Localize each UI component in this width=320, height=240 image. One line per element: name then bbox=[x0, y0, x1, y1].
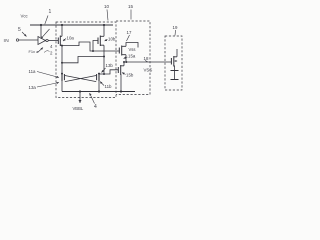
leader for 18 bbox=[145, 61, 148, 62]
transistor Q11b latch right bbox=[98, 73, 100, 81]
leader for 19 bbox=[174, 30, 177, 36]
wire Q15b source to rail bbox=[120, 74, 122, 91]
svg-text:11b: 11b bbox=[105, 84, 113, 89]
svg-text:1: 1 bbox=[49, 9, 52, 15]
node rail-Q10a bbox=[61, 24, 63, 26]
svg-text:15b: 15b bbox=[126, 73, 134, 78]
terminal IN bbox=[16, 39, 18, 41]
wire Vcc rail bbox=[30, 24, 113, 26]
leader for 17 bbox=[127, 35, 130, 41]
wire to Q15b gate bbox=[104, 70, 118, 74]
leader for 5 bbox=[22, 32, 27, 37]
node rail-inverter bbox=[40, 24, 42, 26]
svg-text:15a: 15a bbox=[128, 54, 136, 59]
leader arrow into inverter bbox=[41, 29, 50, 39]
wire rail to inverter top bbox=[40, 25, 42, 37]
wire IN bbox=[19, 39, 38, 41]
node rail latch right bbox=[98, 90, 100, 92]
node Q10b gate W1 bbox=[92, 50, 94, 52]
svg-text:4: 4 bbox=[94, 104, 97, 110]
leader for 11a bbox=[37, 72, 59, 78]
svg-text:F1x a: F1x a bbox=[29, 49, 40, 54]
wire latch right source bbox=[98, 81, 100, 92]
wire Q19 drain bbox=[176, 49, 178, 57]
wire W2 column to Q10b source bbox=[62, 57, 104, 63]
node right column latch bbox=[103, 73, 105, 75]
node column branch W2 bbox=[61, 62, 63, 64]
node rail tap VBB bbox=[79, 90, 81, 92]
svg-text:13a: 13a bbox=[29, 85, 37, 90]
wire Q19 source to capacitor bbox=[174, 66, 176, 71]
wire bottom rail VBB bbox=[62, 91, 135, 93]
svg-text:13b: 13b bbox=[106, 63, 114, 68]
svg-text:Vss: Vss bbox=[129, 47, 136, 52]
dashed box 10 bbox=[56, 22, 116, 98]
wire VBB terminal bbox=[79, 92, 81, 104]
dashed box 19 bbox=[165, 36, 182, 90]
transistor Q15b bbox=[117, 67, 119, 73]
node latch right drain bbox=[98, 73, 100, 75]
inverter bubble bbox=[46, 39, 48, 41]
capacitor C19 plate bottom bbox=[171, 79, 179, 81]
leader for 10b bbox=[105, 40, 108, 42]
svg-text:18: 18 bbox=[144, 56, 149, 61]
svg-text:IN: IN bbox=[4, 38, 10, 44]
wire W1 source to Q17 gate bbox=[62, 42, 119, 51]
svg-text:19: 19 bbox=[173, 25, 178, 30]
node rail-Q10b bbox=[103, 24, 105, 26]
svg-text:Vcc: Vcc bbox=[21, 14, 29, 19]
inverter U5 bbox=[38, 37, 46, 45]
node VSS Q17 bbox=[125, 61, 127, 63]
wire latch left source bbox=[61, 81, 63, 92]
node W2 at Q10b source bbox=[103, 56, 105, 58]
transistor Q10b bbox=[97, 38, 99, 45]
node latch left drain bbox=[61, 73, 63, 75]
node Q10a source branch bbox=[61, 45, 63, 47]
leader for 10 bbox=[107, 10, 108, 21]
dashed box 15 bbox=[116, 21, 150, 95]
svg-text:5: 5 bbox=[18, 27, 21, 33]
svg-text:4: 4 bbox=[50, 44, 53, 49]
node VSS Q15b bbox=[123, 61, 125, 63]
wire Q10b gate bbox=[93, 41, 98, 52]
capacitor C19 plate top bbox=[171, 70, 179, 72]
leader for 10a bbox=[63, 39, 66, 42]
svg-text:VBBL: VBBL bbox=[73, 106, 84, 111]
transistor Q17 bbox=[118, 48, 120, 54]
wire Q10a source column down to latch bbox=[61, 45, 63, 73]
svg-text:10: 10 bbox=[104, 4, 110, 9]
leader for 13a bbox=[37, 83, 59, 88]
svg-text:11a: 11a bbox=[29, 69, 37, 74]
svg-text:15: 15 bbox=[128, 4, 134, 9]
wire inverter out to Q10a gate bbox=[48, 40, 58, 42]
leader for 4 bbox=[90, 93, 95, 104]
node rail Q15b bbox=[120, 90, 122, 92]
wire Q17 source to VSS line bbox=[125, 55, 127, 62]
leader for 15b bbox=[122, 73, 126, 75]
wire VSS line bbox=[124, 61, 171, 63]
svg-text:17: 17 bbox=[127, 30, 132, 35]
leader for 11b bbox=[100, 82, 104, 86]
wire latch right drain link bbox=[99, 73, 104, 75]
transistor Q10a bbox=[57, 38, 59, 45]
wire Q17 drain hook bbox=[126, 43, 138, 48]
leader for Fix bbox=[38, 48, 44, 53]
leader for 13b bbox=[102, 68, 106, 73]
transistor Q11a latch left bbox=[61, 73, 63, 81]
svg-text:VSS: VSS bbox=[144, 68, 153, 73]
substrate arrow Q19 bbox=[174, 60, 177, 62]
wire Q10b source down bbox=[103, 45, 105, 74]
wire Q15b drain to VSS line bbox=[123, 62, 125, 66]
wire Q10a drain to rail bbox=[61, 25, 63, 36]
leader squiggle for 2 bbox=[44, 51, 50, 53]
leader for 1 bbox=[45, 16, 48, 25]
wire Q10b drain to rail bbox=[103, 25, 105, 36]
wire latch cross X bbox=[65, 76, 96, 82]
svg-text:2: 2 bbox=[50, 51, 53, 56]
transistor Q19 bbox=[170, 58, 172, 65]
svg-text:10b: 10b bbox=[108, 37, 116, 42]
capacitor stem bbox=[174, 71, 176, 80]
leader for 15a bbox=[124, 57, 128, 59]
leader for 15 bbox=[130, 10, 132, 20]
svg-text:10a: 10a bbox=[67, 36, 75, 41]
